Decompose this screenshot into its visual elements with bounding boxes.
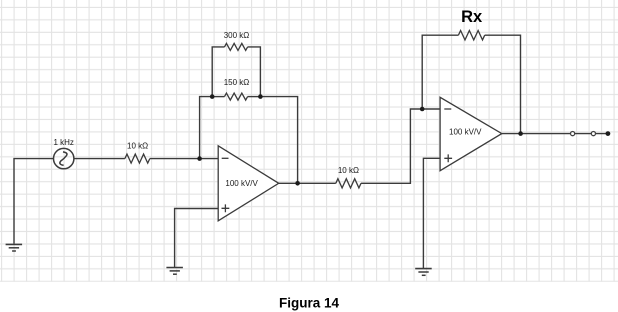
ground G1 (source) xyxy=(6,244,23,251)
open terminal circle 2 xyxy=(591,132,595,136)
op-amp U1 triangle xyxy=(218,146,279,221)
svg-text:Figura 14: Figura 14 xyxy=(279,295,340,310)
wire 150k right lead xyxy=(248,96,261,98)
wire R4 to opamp2 minus input xyxy=(361,109,440,183)
wire feedback riser from node A xyxy=(200,97,213,159)
svg-text:10 kΩ: 10 kΩ xyxy=(338,166,359,175)
node junction dot opamp2 output xyxy=(518,131,523,136)
resistor R1 10k zigzag xyxy=(125,154,150,163)
svg-text:Rx: Rx xyxy=(461,8,483,26)
wire opamp2 output xyxy=(502,133,608,135)
op-amp U2 minus sign xyxy=(444,108,451,110)
node junction dot 150k right xyxy=(258,94,263,99)
wire source to R1 xyxy=(74,158,125,160)
op-amp U2 triangle xyxy=(440,97,502,170)
svg-text:1 kHz: 1 kHz xyxy=(53,138,73,147)
output terminal dot xyxy=(606,131,611,136)
node junction dot 150k left xyxy=(210,94,215,99)
node junction dot opamp2 minus xyxy=(420,107,425,112)
resistor R2 150k zigzag xyxy=(225,93,248,100)
wire 300k loop right xyxy=(248,47,261,97)
ground G3 (op-amp U2 +) xyxy=(415,269,432,276)
svg-text:150 kΩ: 150 kΩ xyxy=(224,78,250,87)
resistor Rx zigzag xyxy=(458,31,484,40)
wire R1 to opamp1 minus input xyxy=(150,158,218,160)
node junction dot opamp1 output xyxy=(295,181,300,186)
svg-text:300 kΩ: 300 kΩ xyxy=(224,31,250,40)
AC source V1 circle xyxy=(54,148,74,168)
wire opamp1 output to R4 xyxy=(279,182,336,184)
wire opamp2 plus input to ground xyxy=(423,158,440,268)
node A junction dot (R1 / opamp1 minus) xyxy=(197,156,202,161)
wire Rx loop left xyxy=(422,35,458,109)
wire 300k loop left xyxy=(212,47,224,97)
wire left lead and down from source xyxy=(14,159,53,244)
op-amp U2 plus sign xyxy=(444,154,452,162)
resistor R4 10k zigzag xyxy=(336,179,361,188)
open terminal circle 1 xyxy=(571,132,575,136)
svg-text:100 kV/V: 100 kV/V xyxy=(449,128,482,137)
wire 150k left lead xyxy=(212,96,224,98)
op-amp U1 minus sign xyxy=(222,157,229,159)
ground G2 (op-amp U1 +) xyxy=(166,268,183,275)
resistor R3 300k zigzag xyxy=(225,43,248,50)
op-amp U1 plus sign xyxy=(222,204,230,212)
svg-text:10 kΩ: 10 kΩ xyxy=(127,141,148,150)
svg-text:100 kV/V: 100 kV/V xyxy=(225,179,258,188)
wire opamp1 plus input to ground xyxy=(175,209,219,268)
wire Rx loop right xyxy=(485,35,521,133)
AC source sine symbol xyxy=(60,152,67,165)
wire 150k row to output node xyxy=(260,97,297,184)
